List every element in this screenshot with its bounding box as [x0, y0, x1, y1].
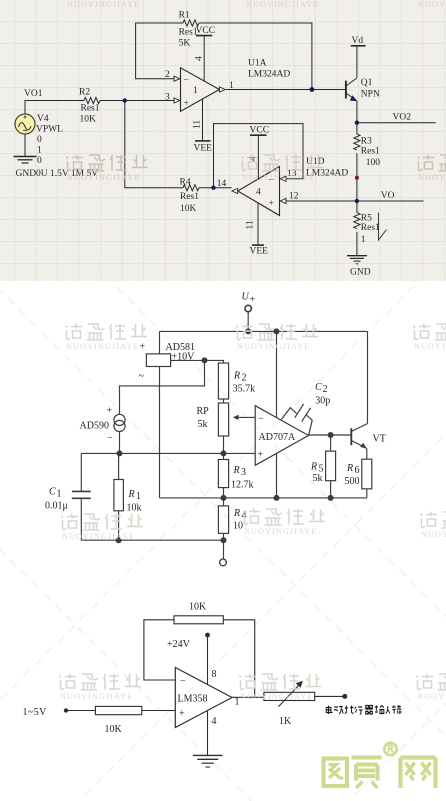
- svg-text:0.01μ: 0.01μ: [45, 501, 68, 512]
- ®: [384, 743, 396, 755]
- wire feedback right down to output: [223, 620, 254, 698]
- svg-text:AD707A: AD707A: [259, 432, 296, 443]
- svg-text:−: −: [258, 414, 264, 425]
- svg-text:−: −: [180, 676, 186, 687]
- ground symbol: [193, 755, 223, 767]
- svg-text:RP: RP: [197, 406, 210, 417]
- svg-text:30p: 30p: [315, 396, 330, 407]
- svg-text:1: 1: [235, 697, 240, 708]
- wire AD707A output to VT base: [309, 434, 352, 436]
- svg-text:R4: R4: [180, 178, 191, 188]
- 网: [401, 758, 436, 789]
- wire input to 10K: [66, 710, 95, 712]
- voltage source V4 VPWL: [15, 114, 63, 166]
- svg-text:VT: VT: [373, 434, 386, 445]
- 动: [334, 707, 343, 715]
- 输: [375, 706, 384, 714]
- svg-text:10K: 10K: [80, 115, 97, 125]
- svg-text:1: 1: [193, 86, 198, 96]
- resistor R2: [79, 88, 100, 125]
- regulator AD581 box: [139, 342, 196, 383]
- svg-text:12: 12: [289, 192, 299, 202]
- svg-text:R: R: [233, 508, 240, 519]
- +24V supply dot: [205, 633, 210, 638]
- wire C1 leads: [80, 453, 82, 540]
- svg-text:NUOYINGJIAYE: NUOYINGJIAYE: [418, 0, 446, 9]
- svg-text:1: 1: [57, 489, 62, 500]
- svg-text:+: +: [269, 199, 274, 209]
- svg-text:AD590: AD590: [80, 421, 109, 432]
- svg-text:+: +: [258, 450, 264, 461]
- svg-text:Vd: Vd: [352, 36, 364, 46]
- svg-text:VCC: VCC: [196, 26, 216, 36]
- svg-text:VO: VO: [381, 191, 395, 201]
- resistor 10K input (box): [95, 706, 141, 714]
- svg-text:14: 14: [217, 179, 227, 189]
- wire VT collector vertical: [367, 331, 369, 423]
- svg-text:10k: 10k: [127, 503, 142, 514]
- wire R2 to pin3: [100, 100, 174, 102]
- svg-text:1K: 1K: [279, 716, 292, 727]
- wire pin4 stub to ground: [207, 710, 209, 755]
- wire bottom rail C: [81, 539, 223, 541]
- svg-text:1~5V: 1~5V: [23, 707, 48, 718]
- resistor R6 (box): [345, 459, 372, 489]
- wire VT emitter down to R6: [366, 449, 368, 460]
- wire R6 bottom stub: [366, 489, 368, 498]
- 图: [324, 759, 348, 787]
- resistor R5 (box): [310, 451, 336, 484]
- wire -input feedback left: [144, 620, 175, 680]
- svg-text:10K: 10K: [180, 204, 197, 214]
- wire R4 stubs and output terminal stub: [223, 498, 225, 559]
- 页: [352, 758, 382, 789]
- U1A VEE power port: [193, 99, 213, 154]
- wire AD581 node to AD590: [120, 360, 205, 414]
- wire bottom rail B: [160, 497, 367, 499]
- 行: [355, 707, 363, 714]
- svg-text:3: 3: [165, 93, 170, 103]
- svg-text:+: +: [107, 406, 113, 417]
- transistor VT: [351, 424, 386, 449]
- svg-text:VEE: VEE: [194, 144, 213, 154]
- svg-text:1: 1: [37, 146, 42, 156]
- svg-text:Res1: Res1: [180, 192, 199, 202]
- watermark row 0 (top edge, latin only): [67, 0, 446, 9]
- svg-text:VO1: VO1: [24, 89, 43, 99]
- watermark row 1: [67, 155, 149, 183]
- 端: [392, 705, 401, 714]
- resistor R5 vertical: [354, 213, 380, 245]
- wire R4 to U1D output: [199, 187, 232, 189]
- svg-text:−: −: [107, 433, 113, 444]
- potentiometer RP: [197, 403, 239, 436]
- svg-text:~: ~: [139, 371, 145, 382]
- U1A VCC power port: [195, 26, 216, 81]
- svg-text:C: C: [49, 487, 56, 498]
- svg-text:+10V: +10V: [172, 352, 196, 363]
- svg-text:11: 11: [193, 120, 203, 129]
- svg-text:4: 4: [256, 188, 261, 198]
- svg-text:0: 0: [37, 156, 42, 166]
- op-amp AD707A: [255, 406, 308, 466]
- wire V- power stub AD707A: [276, 453, 278, 498]
- current source AD590: [80, 406, 126, 444]
- wire V+ power stub AD707A: [276, 331, 278, 417]
- svg-text:R: R: [233, 371, 240, 382]
- svg-text:R: R: [346, 463, 353, 474]
- svg-text:GND: GND: [350, 268, 371, 278]
- op-amp LM358: [175, 668, 239, 728]
- wire pin12 to VO: [286, 200, 424, 202]
- svg-text:NUOYINGJIAYE: NUOYINGJIAYE: [246, 0, 319, 9]
- wire Q1 emitter down / VO2: [356, 101, 358, 134]
- resistor R1: [179, 11, 199, 49]
- svg-text:LM324AD: LM324AD: [248, 70, 290, 80]
- svg-text:5K: 5K: [179, 39, 191, 49]
- resistor R4 (box): [218, 506, 246, 534]
- 电: [326, 706, 332, 715]
- wire U+ stub: [247, 312, 249, 332]
- wire U1D feedback loop: [214, 124, 304, 188]
- wire R5 stubs: [330, 435, 332, 498]
- junction dots: [123, 87, 359, 203]
- wire pin8 stub: [207, 635, 209, 685]
- wire R1 right to output: [199, 23, 312, 90]
- red pin junction dot: [355, 176, 359, 180]
- resistor 1K (box, variable): [264, 692, 315, 700]
- transistor Q1: [346, 78, 380, 101]
- svg-text:2: 2: [165, 70, 170, 80]
- svg-text:8: 8: [212, 669, 217, 680]
- U1D VCC power port: [249, 126, 270, 179]
- svg-text:35.7k: 35.7k: [233, 384, 256, 395]
- svg-text:R2: R2: [79, 88, 90, 98]
- svg-text:V4: V4: [37, 114, 49, 124]
- svg-text:R5: R5: [361, 214, 372, 224]
- label 电动执行器输入端 (drawn glyphs): [326, 705, 401, 714]
- wire top rail: [160, 330, 368, 332]
- svg-text:10: 10: [233, 521, 243, 532]
- svg-text:−: −: [184, 76, 189, 86]
- svg-text:NUOYINGJIAYE: NUOYINGJIAYE: [67, 0, 140, 9]
- U1D VEE power port: [246, 203, 269, 256]
- probe mark right of R5: [379, 213, 387, 240]
- svg-text:GND: GND: [16, 169, 37, 179]
- Vd power port: [351, 36, 366, 46]
- op-amp U1A: [165, 59, 290, 112]
- watermark row 2: [66, 324, 148, 352]
- svg-text:1: 1: [229, 81, 234, 91]
- sheet background: [0, 0, 446, 281]
- svg-text:10K: 10K: [189, 602, 207, 613]
- svg-text:+: +: [250, 295, 256, 306]
- wire Q1 collector up to Vd: [356, 46, 358, 78]
- svg-text:500: 500: [345, 476, 360, 487]
- svg-text:VPWL: VPWL: [36, 125, 63, 135]
- op-amp U1D (mirrored): [217, 157, 349, 216]
- resistor R3 vertical: [354, 134, 380, 168]
- svg-text:VO2: VO2: [393, 113, 412, 123]
- wire U1A output to Q1 base: [226, 89, 346, 91]
- svg-text:2: 2: [323, 384, 328, 395]
- svg-text:+: +: [140, 342, 146, 353]
- capacitor C1: [45, 487, 91, 512]
- node output terminal circle: [220, 559, 227, 566]
- input terminal dot: [64, 708, 68, 712]
- svg-text:VEE: VEE: [250, 247, 269, 257]
- svg-text:LM358: LM358: [178, 694, 208, 705]
- resistor R4: [180, 178, 200, 215]
- svg-text:+: +: [184, 99, 189, 109]
- svg-text:U1D: U1D: [306, 157, 325, 167]
- svg-text:100: 100: [366, 158, 381, 168]
- wire AD581 out right: [171, 360, 224, 363]
- resistor R1 (box): [114, 480, 142, 514]
- svg-text:1: 1: [361, 235, 366, 245]
- svg-text:12.7k: 12.7k: [231, 480, 254, 491]
- wire AD590 down to node: [119, 432, 121, 454]
- svg-text:5k: 5k: [313, 473, 323, 484]
- watermark row 3: [62, 514, 144, 542]
- svg-text:R: R: [128, 489, 135, 500]
- svg-text:NPN: NPN: [361, 90, 380, 100]
- svg-text:R3: R3: [361, 137, 372, 147]
- svg-text:10K: 10K: [105, 724, 123, 735]
- svg-text:1: 1: [136, 491, 141, 502]
- 入: [386, 706, 390, 714]
- wire AD581 down long vertical to bottom rail: [159, 367, 161, 498]
- svg-text:4: 4: [212, 716, 217, 727]
- resistor R3 (box): [218, 460, 253, 491]
- node U+ terminal: [245, 305, 251, 311]
- svg-text:R: R: [233, 465, 240, 476]
- svg-text:Res1: Res1: [361, 223, 380, 233]
- svg-text:Q1: Q1: [361, 78, 373, 88]
- svg-text:C: C: [315, 382, 322, 393]
- wire noninverting input rail: [81, 452, 255, 454]
- svg-text:+: +: [179, 709, 185, 720]
- GND power symbol (right, below R5): [347, 256, 371, 278]
- svg-text:5k: 5k: [198, 419, 208, 430]
- svg-text:6: 6: [355, 465, 360, 476]
- TOP CIRCUIT: [25, 23, 436, 256]
- svg-text:3: 3: [241, 467, 246, 478]
- wire R5 to GND: [356, 232, 358, 256]
- svg-text:2: 2: [242, 373, 247, 384]
- svg-text:0: 0: [37, 135, 42, 145]
- watermark row 4: [60, 674, 142, 702]
- wire VO1 net: [25, 101, 84, 115]
- svg-text:Res1: Res1: [81, 104, 100, 114]
- capacitor C2 (diagonal): [282, 382, 331, 435]
- 执: [345, 706, 354, 714]
- svg-text:U1A: U1A: [248, 59, 267, 69]
- wire 1K to terminal: [315, 695, 345, 697]
- svg-text:R: R: [310, 462, 317, 473]
- GND power symbol (left): [14, 157, 99, 180]
- svg-text:VCC: VCC: [250, 126, 270, 136]
- junction dots middle: [116, 328, 334, 543]
- 器: [365, 706, 373, 715]
- wire R1 stubs: [118, 453, 120, 540]
- wire junction down to R4 net: [125, 101, 183, 188]
- output terminal dot: [342, 694, 347, 699]
- svg-text:11: 11: [246, 220, 256, 229]
- svg-text:+24V: +24V: [167, 639, 191, 650]
- resistor R2 (box): [218, 363, 255, 399]
- wire R3 to R5: [356, 153, 358, 212]
- wire R2-RP-R3 column stubs: [223, 399, 225, 498]
- resistor 10K feedback (box): [174, 616, 223, 624]
- svg-text:4: 4: [195, 56, 205, 61]
- svg-text:Res1: Res1: [361, 147, 380, 157]
- wire output to 1K: [232, 696, 264, 698]
- wire pin2 left and feedback loop R1: [136, 23, 183, 79]
- wire rail to AD581: [159, 331, 161, 354]
- svg-text:R1: R1: [179, 11, 190, 21]
- wire inverting input from RP wiper: [236, 416, 255, 418]
- svg-text:U: U: [242, 292, 250, 303]
- wire 10K to +input: [142, 710, 176, 712]
